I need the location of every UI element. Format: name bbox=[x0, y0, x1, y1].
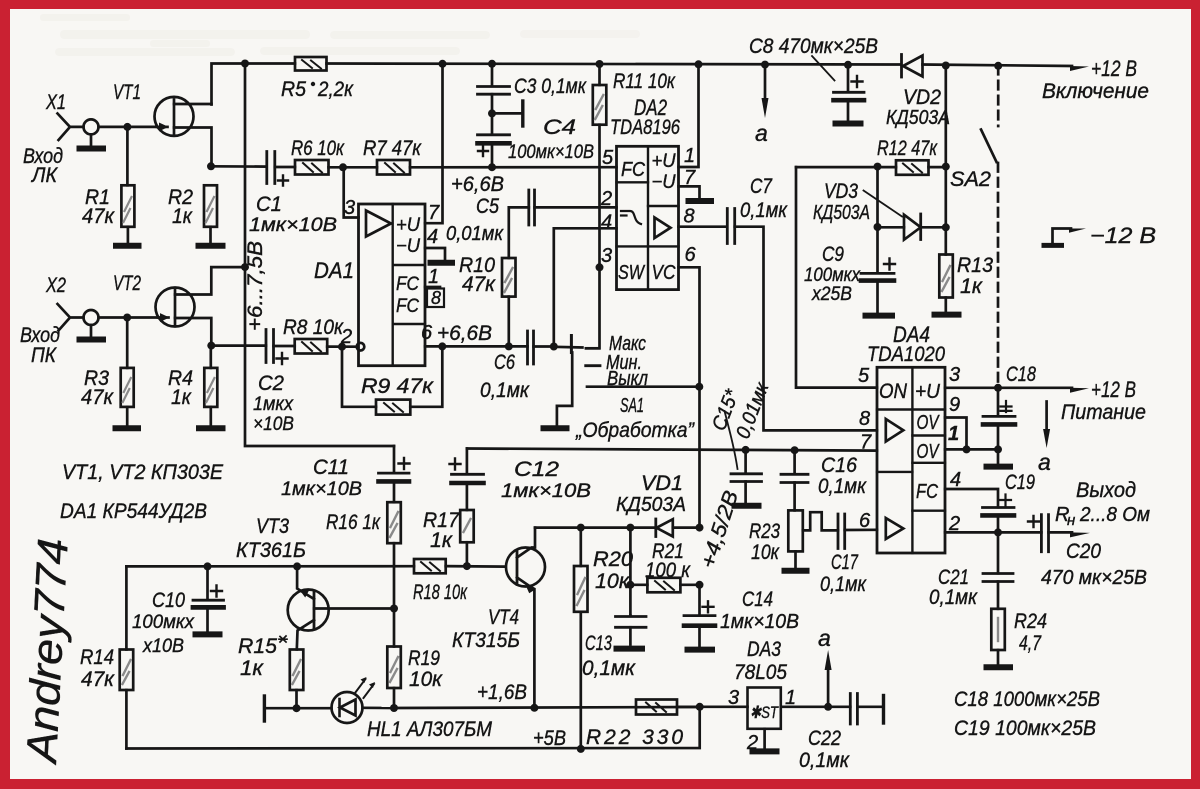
junction dot top bus / vertical to drains bbox=[241, 60, 249, 68]
capacitor C3 bbox=[491, 64, 494, 86]
resistor R22 bbox=[636, 700, 677, 715]
svg-text:X2: X2 bbox=[45, 274, 66, 297]
resistor R10 bbox=[502, 258, 516, 297]
wire HL1 row to VT4 emitter bbox=[394, 707, 700, 708]
DA2 mute-curve glyph bbox=[621, 211, 641, 224]
VT3 emitter row wire bbox=[126, 565, 414, 568]
resistor R17 bbox=[460, 510, 474, 542]
svg-text:2: 2 bbox=[340, 326, 352, 348]
R1 ground bbox=[127, 227, 130, 244]
capacitor C10 (electrolytic) bbox=[206, 566, 209, 599]
svg-text:R18 10к: R18 10к bbox=[413, 581, 468, 604]
X2 ground bbox=[90, 325, 93, 337]
DA4 triangle 2 bbox=[886, 518, 904, 539]
arrow a (right) bbox=[1045, 402, 1048, 433]
svg-text:1к: 1к bbox=[430, 529, 453, 552]
svg-text:10к: 10к bbox=[409, 668, 443, 691]
switched +12 vertical (VD2..R13) bbox=[944, 66, 947, 255]
svg-text:+12 В: +12 В bbox=[1091, 377, 1136, 402]
DA4 triangle 1 bbox=[886, 419, 904, 442]
transistor VT4 (KT315B npn) bbox=[506, 548, 545, 587]
node R15 / HL1 row bbox=[293, 704, 301, 712]
svg-text:1: 1 bbox=[684, 145, 695, 167]
svg-text:R24: R24 bbox=[1014, 610, 1047, 633]
capacitor C20 (electrolytic, output) bbox=[1028, 516, 1039, 527]
node VD1 cathode-line / +4,5V vertical bbox=[696, 524, 704, 532]
vertical wire bus to C11 row bbox=[245, 64, 394, 447]
svg-text:4: 4 bbox=[601, 212, 612, 234]
node +6,6V / C4 bbox=[488, 163, 496, 171]
svg-text:C1: C1 bbox=[256, 193, 282, 216]
node R22 / +5V riser / DA3 pin3 bbox=[696, 703, 704, 711]
+5V bottom rail bbox=[126, 707, 699, 749]
DA2 pin8 wire bbox=[679, 225, 728, 228]
node VT3 base / R16-R19 bbox=[390, 605, 398, 613]
svg-text:C12: C12 bbox=[514, 458, 559, 481]
resistor R24 bbox=[991, 609, 1005, 650]
svg-text:0,01мк: 0,01мк bbox=[732, 378, 774, 441]
resistor R2 bbox=[204, 185, 217, 227]
diode VD2 bbox=[900, 55, 903, 78]
wire R3 top bbox=[126, 318, 129, 368]
DA3 pin1 wire bbox=[781, 705, 851, 708]
C8 pointer line bbox=[812, 56, 835, 81]
svg-text:8: 8 bbox=[859, 408, 870, 430]
resistor R8 bbox=[295, 339, 328, 354]
svg-text:100мк×10В: 100мк×10В bbox=[508, 142, 594, 163]
svg-text:−U: −U bbox=[652, 172, 676, 193]
connector X1 bbox=[58, 114, 84, 141]
svg-text:VT1: VT1 bbox=[113, 81, 141, 104]
svg-text:FC: FC bbox=[916, 481, 938, 503]
capacitor C5 bbox=[535, 206, 617, 209]
node DA3 out / arrow a bbox=[824, 703, 832, 711]
node R12 / switched vertical bbox=[942, 163, 950, 171]
svg-text:1мк×10В: 1мк×10В bbox=[249, 215, 337, 236]
node VT1 source / R2 bbox=[207, 162, 215, 170]
capacitor C22 bbox=[850, 694, 857, 725]
svg-text:0,1мк: 0,1мк bbox=[820, 573, 867, 596]
svg-text:SW: SW bbox=[618, 262, 646, 284]
switch SA1 pole bar bbox=[570, 336, 573, 353]
capacitor C18 (electrolytic) bbox=[997, 388, 1000, 416]
node R21 right / +4,5 vertical bbox=[696, 581, 704, 589]
resistor R20 bbox=[579, 528, 582, 566]
X1 ground bbox=[90, 135, 93, 147]
+1,6V row: left terminal bar bbox=[263, 696, 266, 721]
svg-text:0,01мк: 0,01мк bbox=[446, 223, 504, 245]
wire R11 node down to SA1 Макс contact bbox=[586, 267, 600, 348]
SA1 pole to ground bbox=[557, 353, 572, 426]
node R11 / DA2 pin3 bbox=[596, 263, 604, 271]
transistor VT3 (KT361B pnp) bbox=[288, 590, 329, 631]
node VD3 anode bbox=[874, 223, 882, 231]
svg-text:VD1: VD1 bbox=[641, 472, 683, 495]
op-amp DA1 box bbox=[359, 204, 426, 366]
svg-text:DA1 КР544УД2В: DA1 КР544УД2В bbox=[60, 500, 207, 523]
resistor R11 bbox=[598, 64, 601, 85]
svg-text:+4,5/2В: +4,5/2В bbox=[697, 488, 744, 571]
transistor VT1 (KP303E JFET) bbox=[155, 97, 194, 136]
node X1/R1 junction bbox=[123, 123, 131, 131]
connector X2 bbox=[58, 304, 84, 331]
svg-text:2: 2 bbox=[948, 513, 960, 535]
top +12V bus wire bbox=[212, 64, 1073, 105]
svg-text:100мкх: 100мкх bbox=[132, 612, 195, 633]
svg-text:н: н bbox=[1067, 512, 1075, 529]
node C15 bbox=[742, 446, 750, 454]
svg-text:47к: 47к bbox=[82, 205, 115, 228]
capacitor C4 (electrolytic) bbox=[491, 113, 494, 134]
svg-text:C19: C19 bbox=[1005, 471, 1035, 494]
DA4 pin3 wire (+12 Питание) bbox=[945, 386, 1072, 389]
svg-text:VT2: VT2 bbox=[113, 272, 141, 295]
R12 feed corner down to DA4 pin5 bbox=[796, 167, 877, 388]
DA1 pin8 boxed bbox=[427, 289, 444, 308]
capacitor C12 (electrolytic) bbox=[452, 473, 484, 476]
svg-text:КТ315Б: КТ315Б bbox=[452, 629, 520, 652]
node VT4 emitter bbox=[530, 704, 538, 712]
DA4 pin2 output wire bbox=[945, 531, 1041, 534]
svg-text:R22 330: R22 330 bbox=[586, 726, 683, 749]
node DA1 out / R9 bbox=[438, 342, 446, 350]
R12 row wire bbox=[796, 166, 896, 169]
diode VD1 bbox=[654, 519, 657, 537]
DA4 pin4 wire to C19 bbox=[945, 489, 998, 507]
capacitor C21 bbox=[997, 532, 1000, 573]
capacitor C9 (electrolytic) bbox=[861, 272, 894, 275]
wire X2 to VT2 gate bbox=[99, 316, 159, 319]
svg-text:8: 8 bbox=[684, 206, 695, 228]
junction dot bus / R12-R13 vertical bbox=[942, 62, 950, 70]
svg-text:ЛК: ЛК bbox=[30, 164, 58, 187]
svg-text:ON: ON bbox=[879, 380, 908, 403]
resistor R9 bbox=[376, 400, 410, 415]
svg-text:C7: C7 bbox=[750, 175, 773, 198]
svg-text:X1: X1 bbox=[45, 91, 66, 114]
capacitor C11 (electrolytic) bbox=[393, 446, 396, 473]
long line to DA4 pin7 (C12..C15..C16) bbox=[467, 449, 877, 451]
svg-text:10к: 10к bbox=[751, 541, 780, 564]
DA1 pin2 open circle bbox=[357, 343, 365, 351]
svg-text:6: 6 bbox=[859, 510, 871, 532]
R3 ground bbox=[126, 407, 129, 426]
svg-text:TDA8196: TDA8196 bbox=[610, 116, 680, 139]
wire C2 row bbox=[211, 344, 266, 347]
node C3/C4 midpoint bbox=[488, 109, 496, 117]
DA2 pin7 wire to ground bbox=[679, 186, 700, 198]
svg-text:C18 1000мк×25В: C18 1000мк×25В bbox=[954, 688, 1100, 711]
svg-text:КД503А: КД503А bbox=[886, 107, 950, 129]
svg-text:3: 3 bbox=[949, 364, 960, 386]
svg-text:+U: +U bbox=[396, 215, 420, 236]
arrow a (up, DA3) bbox=[827, 668, 830, 707]
svg-text:47к: 47к bbox=[81, 386, 114, 409]
junction dot bus / DA1 pin7 riser bbox=[439, 60, 447, 68]
DA1 internal triangle bbox=[366, 211, 391, 237]
svg-text:R7 47к: R7 47к bbox=[363, 137, 422, 160]
svg-text:3: 3 bbox=[601, 245, 612, 267]
junction dot bus / C8 bbox=[844, 61, 852, 69]
svg-text:100 к: 100 к bbox=[645, 559, 691, 582]
IC DA4 box bbox=[877, 367, 945, 553]
IC DA2 box bbox=[617, 146, 679, 289]
svg-text:7: 7 bbox=[428, 202, 440, 224]
svg-text:Включение: Включение bbox=[1042, 80, 1149, 103]
+12V bus arrowhead bbox=[1070, 66, 1089, 71]
C22 right terminal bar bbox=[882, 696, 885, 724]
node C6 / DA2 pin4 riser bbox=[550, 343, 558, 351]
wire C12 top corner bbox=[466, 449, 469, 475]
resistor R6 bbox=[295, 160, 329, 175]
svg-text:х25В: х25В bbox=[811, 284, 852, 305]
node C10 bbox=[204, 562, 212, 570]
svg-text:Выход: Выход bbox=[1076, 479, 1136, 502]
svg-text:2: 2 bbox=[746, 732, 758, 754]
DA2 pin6 wire down bbox=[679, 267, 700, 527]
LED HL1 bbox=[332, 692, 363, 723]
svg-text:78L05: 78L05 bbox=[734, 661, 787, 684]
resistor R15 bbox=[290, 650, 304, 691]
node R21 left bbox=[626, 581, 634, 589]
svg-text:1к: 1к bbox=[960, 275, 983, 298]
capacitor C8 (electrolytic) bbox=[847, 65, 850, 92]
svg-text:C5: C5 bbox=[476, 195, 499, 218]
svg-text:C2: C2 bbox=[258, 372, 284, 395]
resistor R21 bbox=[630, 583, 647, 586]
svg-text:+6,6В: +6,6В bbox=[437, 322, 492, 345]
svg-text:1мкх: 1мкх bbox=[253, 394, 294, 415]
node R19 / HL1 row bbox=[390, 704, 398, 712]
junction dot bus / SA2 dashed bbox=[994, 62, 1002, 70]
svg-text:1мк×10В: 1мк×10В bbox=[501, 481, 591, 502]
svg-text:1мк×10В: 1мк×10В bbox=[720, 611, 799, 633]
svg-text:6: 6 bbox=[685, 244, 697, 266]
node DA4 pin3 / C18 / SA2 bbox=[994, 384, 1002, 392]
resistor R13 bbox=[939, 255, 953, 298]
svg-text:C14: C14 bbox=[742, 588, 773, 611]
diode VD3 bbox=[878, 226, 946, 229]
wire C1 row bbox=[211, 165, 267, 168]
resistor R3 bbox=[121, 368, 134, 407]
R21 left vertical bbox=[629, 528, 632, 616]
svg-text:R12 47к: R12 47к bbox=[877, 137, 938, 160]
svg-text:FC: FC bbox=[396, 274, 419, 295]
capacitor C1 bbox=[267, 152, 275, 184]
svg-text:R8 10к: R8 10к bbox=[283, 316, 344, 339]
VD3 pointer line bbox=[864, 191, 903, 217]
svg-text:C13: C13 bbox=[585, 632, 612, 655]
wire R18 to VT4 base bbox=[446, 565, 505, 568]
svg-text:TDA1020: TDA1020 bbox=[867, 343, 945, 366]
svg-text:C3 0,1мк: C3 0,1мк bbox=[514, 75, 587, 98]
node VD3 cathode / R13 bbox=[942, 223, 950, 231]
junction dot bus / R11 bbox=[596, 60, 604, 68]
svg-text:−12 В: −12 В bbox=[1090, 223, 1156, 248]
wire C6 node to SA1 pole bbox=[554, 345, 583, 348]
wire X1 to VT1 gate bbox=[99, 126, 158, 129]
R2 ground bbox=[209, 227, 212, 244]
resistor R19 bbox=[387, 647, 401, 689]
svg-text:C22: C22 bbox=[808, 727, 841, 750]
wire R12 to switched rail bbox=[929, 166, 946, 169]
svg-text:470 мк×25В: 470 мк×25В bbox=[1041, 567, 1147, 589]
svg-text:100мкх: 100мкх bbox=[804, 265, 861, 286]
svg-text:+1,6В: +1,6В bbox=[477, 681, 527, 704]
svg-text:Andrey774: Andrey774 bbox=[18, 537, 78, 766]
svg-text:R9 47к: R9 47к bbox=[361, 375, 434, 398]
svg-text:+6,6В: +6,6В bbox=[451, 173, 504, 196]
svg-text:3: 3 bbox=[344, 197, 355, 219]
svg-text:Выкл: Выкл bbox=[607, 368, 648, 390]
svg-text:R13: R13 bbox=[957, 254, 993, 277]
svg-text:+U: +U bbox=[652, 151, 676, 172]
node VT2 drain / +6..7,5V vertical bbox=[241, 263, 249, 271]
svg-text:R19: R19 bbox=[408, 647, 440, 670]
svg-text:„Обработка”: „Обработка” bbox=[575, 419, 695, 442]
svg-text:5: 5 bbox=[602, 147, 614, 169]
svg-text:0,1мк: 0,1мк bbox=[929, 586, 978, 609]
node VT3 emitter bbox=[293, 562, 301, 570]
svg-text:0,1мк: 0,1мк bbox=[582, 657, 636, 680]
resistor R1 bbox=[121, 185, 134, 227]
SA2 blade bbox=[981, 130, 997, 163]
wire R8 to DA1 pin2 bbox=[327, 345, 356, 348]
svg-text:2,2к: 2,2к bbox=[317, 78, 354, 101]
VD1 row wire bbox=[535, 526, 656, 529]
svg-text:10к: 10к bbox=[595, 570, 630, 593]
svg-text:C19 100мк×25В: C19 100мк×25В bbox=[954, 717, 1096, 740]
svg-text:C17: C17 bbox=[831, 551, 859, 574]
node output / C19 / C21 bbox=[994, 528, 1002, 536]
DA1 pin7 riser from bus bbox=[425, 64, 443, 223]
svg-text:DA1: DA1 bbox=[314, 258, 354, 283]
resistor R7 bbox=[377, 160, 410, 175]
capacitor C16 bbox=[793, 450, 796, 474]
svg-text:C6: C6 bbox=[494, 351, 515, 374]
wire R7 to +6.6V node and DA2 pin5 bbox=[410, 166, 617, 169]
svg-text:КД503А: КД503А bbox=[616, 494, 686, 516]
svg-text:0,1мк: 0,1мк bbox=[818, 475, 867, 498]
svg-text:C18: C18 bbox=[1006, 363, 1036, 386]
svg-text:C8 470мк×25В: C8 470мк×25В bbox=[749, 35, 878, 58]
svg-text:R23: R23 bbox=[749, 520, 780, 543]
svg-text:4: 4 bbox=[950, 469, 961, 491]
node R17 / R18 / VT4 base bbox=[463, 562, 471, 570]
svg-text:VD2: VD2 bbox=[903, 86, 941, 109]
DA1 pin1 stub bbox=[425, 286, 440, 289]
node VT2 source / R4 bbox=[207, 342, 215, 350]
svg-text:4,7: 4,7 bbox=[1019, 632, 1042, 655]
svg-text:5: 5 bbox=[858, 365, 870, 387]
capacitor C14 (electrolytic) bbox=[698, 585, 701, 616]
svg-text:OV: OV bbox=[917, 412, 940, 434]
capacitor C2 bbox=[266, 330, 274, 363]
svg-text:R5: R5 bbox=[281, 78, 306, 101]
IC DA3 78L05 box bbox=[748, 688, 781, 729]
svg-text:R11 10к: R11 10к bbox=[613, 70, 676, 93]
svg-text:+U: +U bbox=[915, 381, 941, 403]
svg-text:SA2: SA2 bbox=[950, 168, 991, 191]
svg-text:C4: C4 bbox=[543, 116, 576, 139]
R4 wire and ground bbox=[209, 346, 212, 426]
svg-text:OV: OV bbox=[917, 441, 940, 463]
DA2 pin1 wire to bus bbox=[679, 64, 699, 167]
DA4 pins 9-1 loop bbox=[945, 418, 967, 450]
svg-text:1к: 1к bbox=[171, 386, 192, 409]
arrow a (from top bus) bbox=[764, 65, 767, 100]
svg-text:0,1мк: 0,1мк bbox=[480, 379, 530, 402]
svg-text:+6...7,5В: +6...7,5В bbox=[244, 241, 267, 331]
svg-text:C16: C16 bbox=[821, 454, 857, 477]
svg-text:а: а bbox=[755, 120, 768, 146]
-12V tap symbol bbox=[1053, 229, 1072, 244]
svg-text:х10В: х10В bbox=[142, 636, 184, 657]
junction dot bus / C3 bbox=[488, 60, 496, 68]
svg-text:47к: 47к bbox=[462, 273, 496, 296]
svg-text:КТ361Б: КТ361Б bbox=[236, 539, 306, 562]
svg-text:КД503А: КД503А bbox=[813, 202, 870, 224]
capacitor C7 bbox=[727, 209, 734, 244]
resistor R18 bbox=[414, 559, 446, 573]
node R6/R7/pin3 junction bbox=[339, 163, 347, 171]
svg-text:1мк×10В: 1мк×10В bbox=[281, 479, 362, 500]
resistor R23 bbox=[788, 510, 803, 551]
svg-text:8: 8 bbox=[431, 288, 441, 308]
DA2 pin4 wire riser bbox=[554, 228, 617, 346]
svg-text:1к: 1к bbox=[240, 657, 264, 680]
svg-text:+12 В: +12 В bbox=[1091, 56, 1137, 81]
feedback resistor R9 loop bbox=[342, 346, 442, 406]
svg-text:VT3: VT3 bbox=[256, 515, 289, 538]
svg-text:R6 10к: R6 10к bbox=[291, 137, 345, 160]
svg-text:0,1мк: 0,1мк bbox=[799, 749, 850, 772]
resistor R4 bbox=[204, 368, 217, 407]
svg-text:R15: R15 bbox=[238, 635, 277, 658]
node X2/R3 junction bbox=[123, 314, 131, 322]
svg-text:R20: R20 bbox=[593, 548, 633, 571]
node Выкл / DA2pin6 vertical / ON line bbox=[695, 383, 703, 391]
switch SA2 dashed link bbox=[997, 66, 1000, 126]
wire C7 to DA4 pin8 bbox=[735, 227, 877, 431]
node VD1 anode / R21 vertical bbox=[626, 524, 634, 532]
svg-text:VT4: VT4 bbox=[488, 606, 519, 629]
svg-text:C11: C11 bbox=[313, 456, 349, 479]
svg-text:SA1: SA1 bbox=[620, 395, 644, 417]
svg-text:7: 7 bbox=[860, 432, 872, 454]
node R20 / +5V rail bbox=[577, 745, 585, 753]
C15 pointer curve bbox=[725, 411, 738, 469]
SA1 Выкл contact line bbox=[587, 385, 699, 388]
DA1 pin6 output wire bbox=[425, 345, 528, 348]
svg-text:1: 1 bbox=[428, 266, 439, 288]
svg-text:3: 3 bbox=[728, 687, 739, 709]
node DA1-out line / R10 bbox=[505, 342, 513, 350]
svg-text:Питание: Питание bbox=[1061, 401, 1146, 424]
DA1 pin3 wire bbox=[344, 167, 359, 217]
svg-text:а: а bbox=[1038, 449, 1051, 475]
svg-text:×10В: ×10В bbox=[253, 414, 294, 435]
junction dot bus / arrow a bbox=[761, 61, 769, 69]
node R8/R9 junction bbox=[338, 343, 346, 351]
svg-text:−U: −U bbox=[396, 236, 420, 257]
svg-text:FC: FC bbox=[396, 296, 419, 317]
resistor R14 bbox=[125, 566, 128, 649]
HL1 emission arrows bbox=[355, 679, 366, 693]
svg-text:C9: C9 bbox=[822, 243, 844, 266]
capacitor C17 bbox=[838, 514, 845, 549]
svg-text:а: а bbox=[818, 625, 831, 651]
